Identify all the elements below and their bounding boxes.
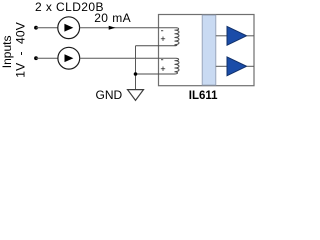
polarity labels coil 2: [160, 54, 165, 74]
label: Inputs 1V - 40V (rotated): [0, 22, 27, 78]
node: input terminal 2: [34, 56, 38, 60]
wire: buffer 1 to chip edge: [247, 35, 254, 37]
output buffer 2: [227, 57, 247, 76]
svg-text:+: +: [160, 34, 165, 44]
ground symbol: [128, 90, 144, 101]
svg-text:IL611: IL611: [189, 90, 218, 102]
wire: coil 1 return down to ground node: [135, 46, 137, 90]
wire: current source 1 to coil 1 (with 20 mA arrow): [80, 27, 176, 29]
svg-text:20 mA: 20 mA: [94, 11, 131, 25]
svg-text:Inputs: Inputs: [0, 35, 14, 68]
polarity labels coil 1: [160, 25, 165, 43]
coil 1 of IL611: [136, 28, 180, 46]
node: input terminal 1: [34, 26, 38, 30]
wire: input 2 to current source 2: [36, 57, 58, 59]
wire: buffer 2 to chip edge: [247, 65, 254, 67]
coil 2 of IL611: [136, 58, 180, 74]
svg-text:GND: GND: [96, 88, 123, 102]
chip IL611 outline: [159, 15, 255, 86]
wire: input 1 to current source 1: [36, 27, 58, 29]
current source CLD 1 (circle with arrow): [58, 17, 80, 39]
wire: barrier to output buffer 2: [216, 65, 227, 67]
svg-text:-: -: [161, 54, 164, 64]
wire: current source 2 to coil 2: [80, 57, 176, 59]
node: ground junction: [134, 72, 138, 76]
svg-text:+: +: [160, 64, 165, 74]
GMR isolation barrier band: [202, 15, 216, 85]
svg-text:1V - 40V: 1V - 40V: [13, 22, 27, 78]
current source CLD 2 (circle with arrow): [58, 47, 80, 69]
wire: barrier to output buffer 1: [216, 35, 227, 37]
output buffer 1: [227, 26, 247, 45]
